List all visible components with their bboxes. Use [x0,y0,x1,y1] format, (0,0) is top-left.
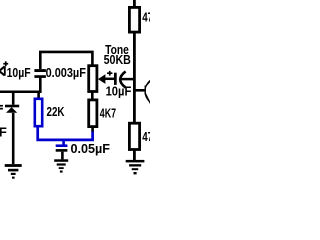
resistor R1 47K top [129,7,139,32]
ground right [126,160,145,163]
svg-text:50KB: 50KB [104,52,131,67]
wire R4 bottom black stub [91,127,94,132]
svg-text:F: F [0,125,7,140]
wire blue stub to C4 [62,140,65,145]
capacitor C5 curved plate [120,71,125,87]
transistor Q1 base bar [145,85,146,94]
svg-text:0.05µF: 0.05µF [71,141,111,156]
wire wiper tail [105,78,114,81]
label fragment at left edge [0,105,3,107]
potentiometer VR1 Tone body [89,66,97,92]
capacitor C4 0.05uF plates [56,144,68,147]
wiper arrow of off-screen volume pot (chevron, clipped) [0,67,5,76]
wire main vertical top stub [133,0,136,7]
ground left [5,164,22,167]
svg-text:47K: 47K [142,129,150,144]
svg-text:10µF: 10µF [106,83,132,98]
plus sign of C5 [107,72,112,74]
svg-text:22K: 22K [47,104,65,119]
resistor R4 4K7 [89,100,97,127]
svg-text:10µF: 10µF [7,65,31,80]
transistor Q1 emitter lead [145,93,151,105]
ground middle [54,159,68,162]
wire 22K top lead [37,93,40,99]
wire C2 bottom lead [39,78,42,92]
capacitor C2 0.003uF plates [34,69,46,72]
transistor Q1 circle [145,77,173,105]
capacitor C3 arrow plate [6,107,17,113]
capacitor C1 10uF plate at left edge [4,66,6,76]
wire left cap to bypass cap C3 [12,93,15,105]
resistor R3 22K blue [35,99,42,126]
svg-text:47K: 47K [142,10,150,25]
svg-text:0.003µF: 0.003µF [46,65,86,80]
wire pot to R4 [91,92,94,101]
plus sign of C1 [3,63,8,65]
wire top rail from C2 top to pot VR1 top [40,52,92,69]
wire mid-left rail [0,90,42,93]
svg-text:4K7: 4K7 [100,105,116,120]
wire blue bottom rail [38,126,93,140]
capacitor C5 10uF straight plate [114,73,117,85]
wire C3 to ground [12,113,15,164]
wire R2 to ground [133,149,136,160]
wire transistor base [134,89,146,92]
wiper arrow of VR1 [98,74,105,84]
wire C5 to main vertical [121,78,136,81]
wire main vertical middle [133,32,136,123]
wire C4 to ground [61,152,64,160]
capacitor C3 electrolytic plate [5,105,19,108]
transistor Q1 collector lead [145,80,151,87]
resistor R2 47K bottom [129,123,139,149]
